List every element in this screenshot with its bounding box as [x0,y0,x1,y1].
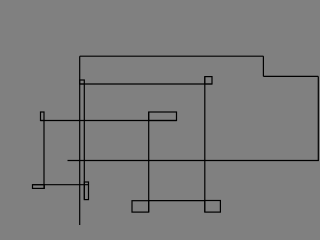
wire W12 vertical from R2 [148,112,150,212]
wire W7 horizontal at y84 [80,83,212,85]
wire W9 vertical from S1 [83,84,85,200]
wire W10 horizontal at y120 [41,120,177,122]
wire W2 step vertical [262,56,264,76]
wire W5 long middle horizontal [68,160,319,162]
wire W3 step horizontal [263,75,318,77]
node R6 narrow tall box [84,182,88,200]
wire W13 horizontal connecting R3 R4 [149,200,205,202]
wire W1 top horizontal [80,55,264,57]
node R2 wide box [149,112,177,121]
wire W4 right vertical [317,76,319,160]
wire W14 horizontal at y185 [33,184,89,186]
wire W8 vertical from S2 [204,77,206,213]
node R5 flat box [33,185,45,189]
wire W11 vertical from R1 [43,121,45,189]
node R1 small tall box [41,112,45,121]
wire W6 tall left vertical [79,56,81,225]
node S1 small square [80,80,85,84]
node S2 small square [205,77,212,84]
node R4 box bottom right [205,201,221,213]
node R3 box bottom middle [132,201,149,212]
